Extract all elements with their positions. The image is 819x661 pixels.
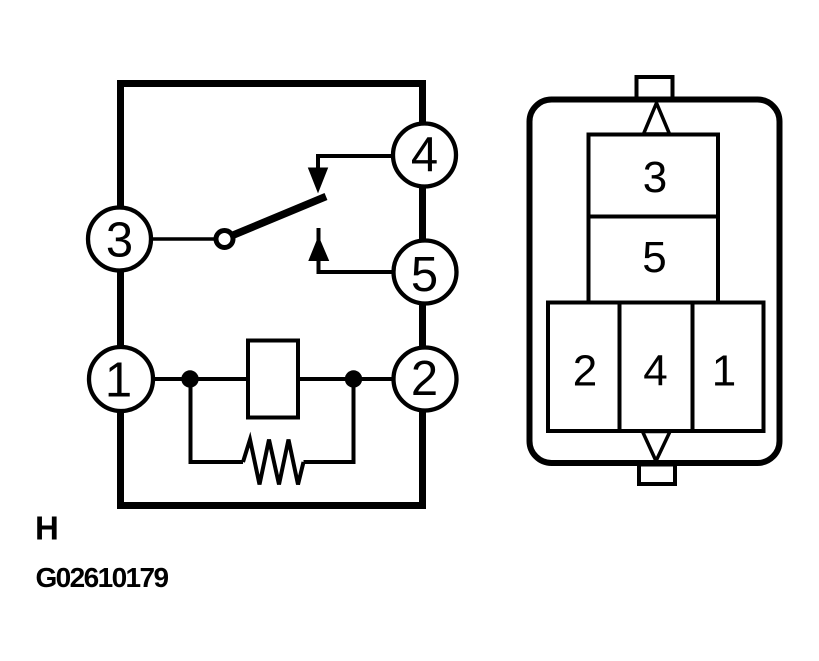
wire: pin 1 to pin 2 (coil line) <box>153 377 393 381</box>
cavity column (pins 3/5) <box>589 135 719 303</box>
connector bottom tab <box>639 465 675 485</box>
resistor branch wire left <box>191 379 244 462</box>
terminal circle 2 <box>394 348 457 411</box>
connector body outline <box>530 100 780 464</box>
switch pivot (open contact) <box>216 231 233 248</box>
arrowhead down (toward switch blade) <box>309 168 328 192</box>
relay box outline <box>121 84 423 506</box>
resistor R (zigzag) <box>243 440 304 485</box>
junction dot right <box>345 370 362 387</box>
svg-text:1: 1 <box>105 354 132 408</box>
svg-text:3: 3 <box>643 153 667 202</box>
svg-text:G02610179: G02610179 <box>36 562 169 593</box>
svg-text:2: 2 <box>411 352 438 406</box>
terminal circle 3 <box>88 208 151 271</box>
divider row left <box>618 303 622 432</box>
svg-text:1: 1 <box>712 347 736 396</box>
divider row right <box>691 303 695 432</box>
svg-text:4: 4 <box>643 347 667 396</box>
arrowhead up (toward switch blade) <box>309 237 329 261</box>
wire: pin 5 to up-arrow <box>319 228 393 272</box>
resistor branch wire right <box>304 379 354 462</box>
svg-text:5: 5 <box>411 248 438 302</box>
svg-text:4: 4 <box>411 128 438 182</box>
connector bottom index triangle <box>643 432 671 462</box>
connector top tab <box>637 77 673 99</box>
svg-text:5: 5 <box>642 233 666 282</box>
relay coil (box) <box>248 341 298 418</box>
terminal circle 1 <box>89 347 153 411</box>
svg-text:2: 2 <box>573 347 597 396</box>
svg-text:3: 3 <box>106 214 133 268</box>
terminal circle 5 <box>394 241 457 304</box>
terminal circle 4 <box>393 124 456 187</box>
wire: pin 4 to down-arrow <box>318 156 392 188</box>
switch blade <box>231 197 326 237</box>
cavity row (pins 2/4/1) <box>548 303 764 432</box>
connector top index triangle <box>644 103 670 134</box>
svg-text:H: H <box>35 510 59 547</box>
junction dot left <box>181 370 198 387</box>
wire: pin 3 to switch pivot <box>152 237 216 241</box>
divider between cavity 3 and 5 <box>589 215 719 219</box>
